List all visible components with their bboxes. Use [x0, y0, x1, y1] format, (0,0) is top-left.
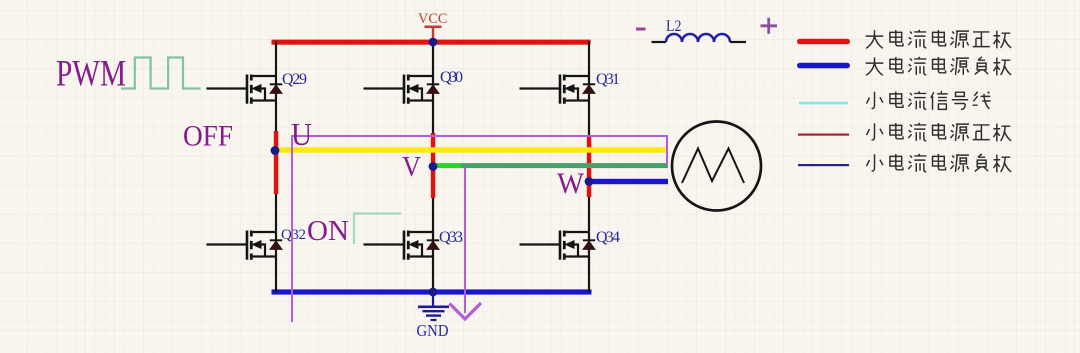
wire: purple annotation from V with arrow [450, 167, 482, 319]
wire: V phase sea green [461, 163, 668, 168]
wire: V column red segment [431, 133, 436, 198]
wire: W column red segment [587, 136, 592, 197]
svg-text:W: W [557, 167, 585, 200]
wire: V column black [432, 41, 434, 292]
transistor Q32 [207, 231, 283, 260]
power symbol VCC [418, 11, 448, 40]
legend row 2: 大电流电源负极 [866, 57, 1011, 75]
legend swatch thin red [798, 134, 849, 136]
svg-text:GND: GND [417, 321, 449, 340]
wire: VCC red bus (top) [272, 40, 591, 45]
legend row 3: 小电流信号线 [867, 91, 991, 110]
svg-text:OFF: OFF [183, 120, 233, 153]
legend swatch thin navy [798, 164, 849, 166]
node U [271, 146, 280, 155]
inductor L2 [652, 34, 747, 42]
transistor Q33 [364, 231, 440, 260]
legend swatch thick red [797, 39, 850, 45]
wire: U phase yellow [274, 147, 666, 152]
node VCC junction [429, 38, 438, 47]
wire: U column black [275, 41, 277, 292]
svg-text:VCC: VCC [418, 11, 448, 27]
transistor Q29 [207, 75, 283, 104]
svg-text:ON: ON [307, 215, 349, 247]
transistor Q34 [520, 231, 596, 260]
PWM square wave [121, 58, 201, 89]
wire: GND blue bus (bottom) [272, 289, 592, 294]
svg-text:Q32: Q32 [281, 227, 306, 243]
svg-text:Q31: Q31 [596, 71, 620, 88]
svg-text:U: U [291, 116, 312, 152]
svg-text:Q34: Q34 [596, 229, 620, 246]
node W [585, 177, 594, 186]
wire: W phase blue [589, 179, 668, 184]
svg-text:L2: L2 [666, 18, 682, 35]
svg-text:Q33: Q33 [439, 229, 463, 246]
legend swatch cyan [799, 102, 848, 105]
ground GND symbol [418, 292, 449, 320]
legend row 5: 小电流电源负极 [867, 154, 1012, 172]
node V [429, 162, 438, 171]
ON gate step waveform [354, 214, 401, 245]
svg-text:Q30: Q30 [440, 69, 463, 86]
node GND junction [429, 288, 438, 297]
svg-text:V: V [402, 151, 421, 183]
wire: V phase bright green [433, 163, 462, 168]
label plus [761, 18, 778, 34]
transistor Q30 [364, 75, 440, 104]
svg-text:PWM: PWM [56, 54, 126, 95]
label minus [636, 28, 646, 31]
legend row 1: 大电流电源正极 [866, 30, 1011, 48]
transistor Q31 [520, 75, 596, 104]
wire: purple annotation from U [292, 136, 667, 322]
legend row 4: 小电流电源正极 [867, 123, 1012, 141]
legend swatch thick blue [797, 63, 850, 69]
svg-text:Q29: Q29 [282, 71, 307, 88]
wire: U column red segment [274, 131, 279, 194]
motor M1 [672, 122, 761, 211]
wire: W column black [588, 41, 590, 292]
